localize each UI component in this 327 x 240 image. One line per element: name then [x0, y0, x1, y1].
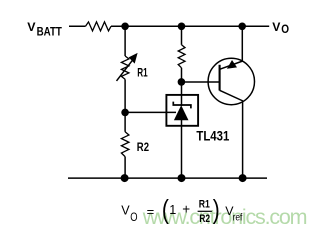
wire ref (node to TL431) — [125, 111, 176, 113]
node top-middle junction — [178, 23, 186, 31]
node top-right junction (emitter) — [238, 23, 246, 31]
svg-text:O: O — [281, 22, 289, 36]
node ground-left junction — [121, 174, 129, 182]
TL431 cathode bar — [173, 102, 191, 109]
wire resistor to cathode node — [181, 68, 183, 82]
wire R1 to node — [124, 79, 126, 112]
node top-left junction — [121, 23, 129, 31]
wire node to R2 — [124, 112, 126, 131]
svg-text:1: 1 — [169, 203, 176, 217]
resistor R1 (variable) — [117, 53, 138, 81]
wire base (node to transistor) — [181, 81, 219, 83]
wire middle branch upper — [181, 26, 183, 45]
svg-text:TL431: TL431 — [196, 128, 229, 143]
transistor emitter arrow — [227, 60, 237, 69]
resistor R2 — [121, 132, 128, 157]
node R1/R2 junction — [121, 109, 129, 117]
svg-text:+: + — [182, 202, 190, 217]
node ground-middle junction — [178, 174, 186, 182]
svg-text:V: V — [27, 20, 36, 34]
transistor emitter diagonal — [220, 61, 243, 69]
ground rail — [68, 177, 267, 179]
wire emitter to top rail — [241, 26, 243, 61]
svg-text:=: = — [147, 204, 155, 219]
svg-text:BATT: BATT — [37, 25, 63, 39]
node cathode/base junction — [178, 78, 186, 86]
wire VBATT to resistor — [69, 25, 86, 27]
svg-text:R1: R1 — [137, 66, 147, 80]
wire TL431 anode to ground rail — [181, 120, 183, 178]
label VO — [272, 20, 289, 36]
wire R2 to ground rail — [124, 157, 126, 179]
svg-text:O: O — [130, 210, 137, 224]
svg-text:(: ( — [162, 195, 169, 225]
svg-text:R2: R2 — [137, 140, 149, 154]
transistor base bar — [219, 65, 221, 91]
svg-text:): ) — [213, 195, 220, 225]
wire top rail to VO — [111, 25, 269, 27]
resistor (series, top rail) — [86, 22, 112, 31]
svg-text:V: V — [272, 20, 281, 34]
resistor (bias, middle branch) — [178, 45, 185, 68]
label VBATT — [27, 20, 62, 38]
wire collector to ground rail — [242, 101, 244, 178]
transistor Q1 circle — [208, 58, 254, 104]
svg-text:V: V — [121, 203, 130, 217]
node ground-right junction — [239, 174, 247, 182]
svg-text:R2: R2 — [199, 213, 210, 225]
op-amp U1 TL431 box — [166, 95, 198, 126]
formula VO = (1 + R1/R2) Vref — [121, 195, 242, 226]
wire left branch upper — [124, 26, 126, 56]
wire node to TL431 cathode — [181, 82, 183, 106]
transistor collector diagonal — [220, 90, 243, 101]
TL431 anode triangle — [174, 105, 189, 120]
svg-text:ref: ref — [233, 212, 243, 223]
svg-text:R1: R1 — [199, 199, 210, 211]
